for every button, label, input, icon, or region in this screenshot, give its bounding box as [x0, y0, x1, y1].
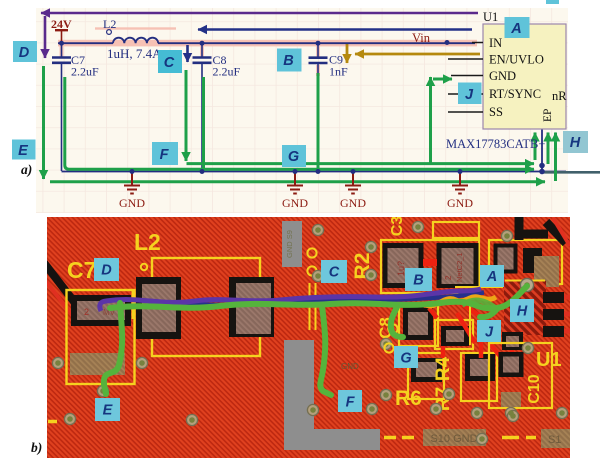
svg-text:D: D — [19, 45, 30, 61]
svg-text:F: F — [346, 395, 356, 411]
svg-text:C7: C7 — [67, 257, 96, 283]
svg-text:E: E — [103, 403, 114, 419]
svg-text:B: B — [413, 273, 423, 289]
svg-text:H: H — [517, 304, 528, 320]
svg-text:C: C — [329, 265, 340, 281]
svg-text:Vin: Vin — [412, 31, 431, 45]
svg-text:EN/UVLO: EN/UVLO — [489, 53, 544, 67]
svg-text:G: G — [400, 351, 411, 367]
svg-text:U1: U1 — [536, 349, 562, 371]
svg-text:2.2uF: 2.2uF — [71, 65, 99, 79]
svg-text:C10: C10 — [526, 374, 543, 403]
svg-text:1u?: 1u? — [396, 261, 406, 276]
svg-text:L2: L2 — [134, 229, 161, 255]
svg-text:2.2uF: 2.2uF — [213, 65, 241, 79]
svg-text:nR: nR — [552, 89, 567, 103]
svg-text:b): b) — [31, 440, 42, 455]
svg-text:L2: L2 — [103, 17, 116, 31]
svg-text:J: J — [465, 87, 474, 103]
svg-text:2: 2 — [84, 307, 89, 317]
svg-text:GND: GND — [447, 196, 473, 210]
svg-text:SS: SS — [489, 105, 503, 119]
svg-text:1uH, 7.4A: 1uH, 7.4A — [107, 46, 162, 61]
svg-text:MAX17783CATB+: MAX17783CATB+ — [446, 137, 545, 151]
svg-text:a): a) — [21, 162, 32, 177]
svg-text:J: J — [485, 325, 494, 341]
svg-text:S1: S1 — [548, 434, 561, 446]
svg-text:E: E — [18, 143, 29, 159]
svg-text:NetC2_1: NetC2_1 — [455, 252, 464, 282]
svg-text:S10 GND: S10 GND — [430, 433, 477, 445]
svg-text:GND: GND — [340, 196, 366, 210]
svg-text:G: G — [288, 149, 299, 165]
svg-text:C3: C3 — [389, 216, 406, 237]
svg-text:1nF: 1nF — [329, 65, 348, 79]
svg-text:GND: GND — [282, 196, 308, 210]
svg-text:R4: R4 — [433, 356, 454, 381]
svg-text:A: A — [510, 21, 521, 37]
svg-text:IN: IN — [489, 36, 502, 50]
svg-text:2: 2 — [444, 275, 453, 280]
svg-text:D: D — [101, 263, 112, 279]
svg-text:EP: EP — [542, 109, 554, 122]
svg-text:RT/SYNC: RT/SYNC — [489, 87, 541, 101]
svg-text:24V: 24V — [51, 17, 72, 31]
svg-text:GND: GND — [489, 69, 516, 83]
svg-text:C: C — [164, 55, 175, 71]
svg-text:B: B — [283, 53, 293, 69]
svg-text:GND S9: GND S9 — [285, 230, 294, 258]
svg-text:GND: GND — [119, 196, 145, 210]
svg-text:F: F — [160, 147, 170, 163]
svg-text:R6: R6 — [395, 387, 422, 410]
svg-text:H: H — [570, 135, 581, 151]
svg-text:A: A — [486, 269, 497, 285]
svg-text:U1: U1 — [483, 10, 498, 24]
svg-text:GND: GND — [341, 362, 359, 371]
